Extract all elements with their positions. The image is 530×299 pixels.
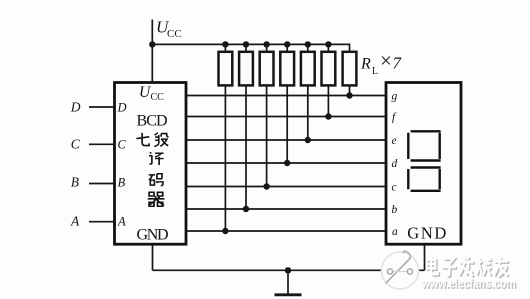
svg-text:A: A	[70, 213, 80, 228]
node Ucc junction	[149, 41, 155, 47]
wire R4 bottom lead to net d	[286, 85, 288, 163]
wire display GND drop	[424, 244, 426, 270]
wire R7 bottom lead to net g	[349, 85, 351, 95]
svg-text:CC: CC	[167, 28, 182, 40]
wire R5 bottom lead to net e	[307, 85, 309, 140]
wire net a	[186, 230, 386, 232]
display DS1 seven-segment LED	[386, 83, 461, 245]
svg-text:C: C	[71, 136, 81, 151]
node R6 rail junction	[325, 41, 331, 47]
svg-text:www.elecfans.com: www.elecfans.com	[421, 276, 516, 291]
display seven-segment glyph	[408, 131, 440, 191]
svg-text:D: D	[70, 99, 81, 114]
svg-text:L: L	[372, 66, 378, 77]
label ma (Chinese: code)	[149, 174, 163, 186]
svg-text:d: d	[392, 158, 398, 170]
wire net g	[186, 95, 386, 97]
wire R5 top lead	[307, 44, 309, 52]
node R1 rail junction	[222, 41, 228, 47]
svg-text:GND: GND	[407, 224, 446, 243]
wire R6 bottom lead to net f	[327, 85, 329, 116]
node a junction	[222, 228, 228, 234]
node ground junction	[285, 267, 291, 273]
svg-text:×: ×	[380, 49, 392, 73]
resistor R1	[219, 52, 233, 86]
wire input C stub	[89, 143, 115, 145]
svg-text:g: g	[392, 91, 398, 103]
node d junction	[284, 160, 290, 166]
node c junction	[263, 183, 269, 189]
svg-text:c: c	[392, 182, 397, 194]
wire bottom ground rail	[153, 269, 425, 271]
wire decoder GND drop	[152, 244, 154, 270]
wire input D stub	[89, 106, 115, 108]
svg-text:C: C	[118, 137, 127, 151]
wire net f	[186, 116, 386, 118]
wire net b	[186, 208, 386, 210]
svg-text:e: e	[392, 135, 397, 147]
wire input A stub	[89, 221, 115, 223]
svg-text:B: B	[118, 175, 126, 189]
svg-text:CC: CC	[151, 92, 165, 103]
svg-text:D: D	[117, 101, 127, 115]
wire net c	[186, 186, 386, 188]
svg-text:b: b	[392, 204, 398, 216]
ground	[275, 270, 302, 295]
resistor R4	[280, 52, 294, 86]
label yi (Chinese: translate/decode)	[149, 152, 164, 165]
wire Ucc supply vertical	[151, 20, 153, 83]
label qi2 (Chinese: device)	[148, 192, 165, 206]
node e junction	[305, 137, 311, 143]
svg-text:BCD: BCD	[137, 113, 168, 130]
resistor R6	[322, 52, 336, 86]
watermark text dianzifashaoyou (Chinese, embossed)	[427, 256, 510, 277]
wire R1 top lead	[224, 44, 226, 52]
wire R3 bottom lead to net c	[266, 85, 268, 186]
svg-text:R: R	[360, 56, 371, 73]
node R5 rail junction	[305, 41, 311, 47]
label Ucc top	[156, 18, 182, 41]
svg-text:a: a	[392, 226, 398, 238]
watermark logo circle	[382, 251, 419, 289]
resistor R7	[343, 52, 357, 86]
wire R3 top lead	[266, 44, 268, 52]
wire R4 top lead	[286, 44, 288, 52]
node b junction	[243, 206, 249, 212]
wire input B stub	[89, 183, 115, 185]
node R4 rail junction	[284, 41, 290, 47]
node g junction	[346, 92, 352, 98]
node R2 rail junction	[243, 41, 249, 47]
label qi (Chinese: seven)	[136, 133, 149, 146]
wire net d	[186, 162, 386, 164]
node R3 rail junction	[263, 41, 269, 47]
node f junction	[325, 113, 331, 119]
wire Ucc rail to resistors	[152, 44, 349, 51]
svg-text:GND: GND	[137, 226, 169, 243]
IC U1 BCD seven-segment decoder	[115, 83, 187, 245]
wire R1 bottom lead to net a	[224, 85, 226, 231]
wire R2 top lead	[245, 44, 247, 52]
svg-text:A: A	[117, 214, 126, 228]
svg-text:B: B	[71, 174, 79, 189]
resistor R2	[239, 52, 253, 86]
resistor R3	[260, 52, 274, 86]
wire R6 top lead	[327, 44, 329, 52]
label duan (Chinese: segment)	[154, 133, 168, 147]
label RL x7	[360, 49, 403, 77]
label decoder Ucc pin	[139, 84, 164, 103]
wire R2 bottom lead to net b	[245, 85, 247, 209]
resistor R5	[301, 52, 315, 86]
wire net e	[186, 139, 386, 141]
